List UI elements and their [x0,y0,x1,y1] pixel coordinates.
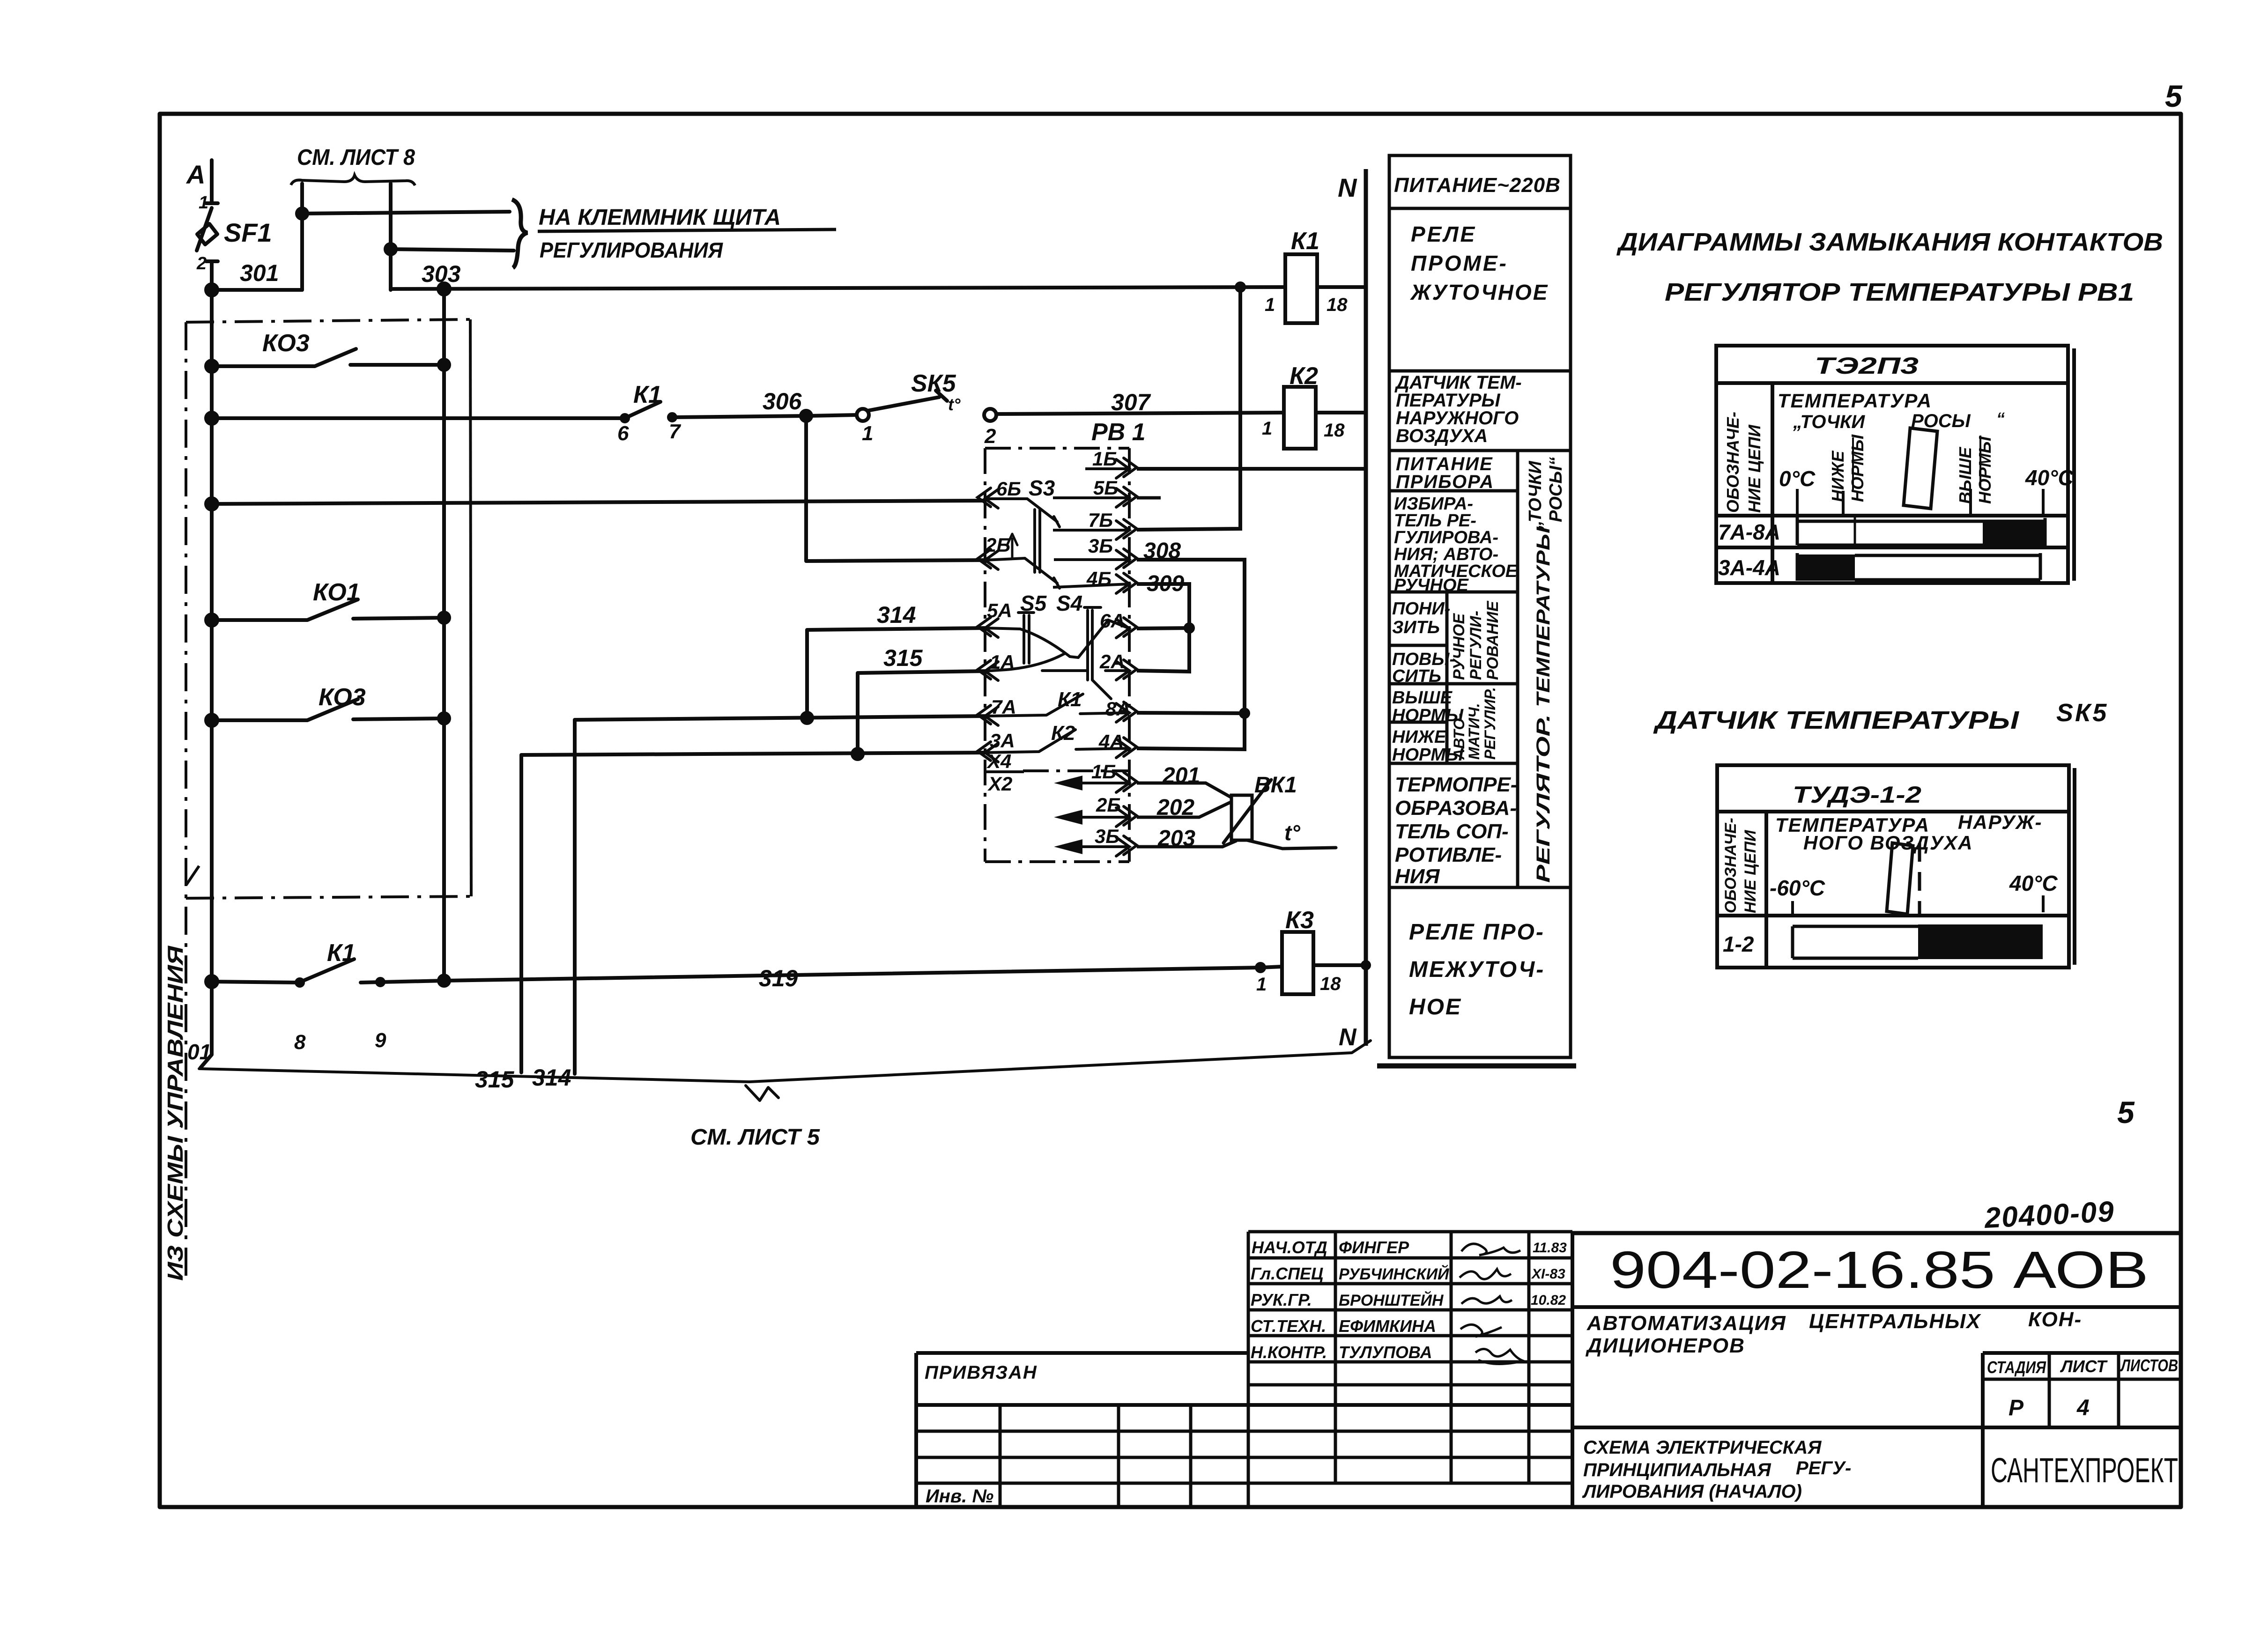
svg-text:ВК1: ВК1 [1254,773,1297,798]
pin X2-1B arrow [1116,772,1137,792]
svg-text:СТ.ТЕХН.: СТ.ТЕХН. [1251,1316,1326,1336]
svg-text:0°С: 0°С [1779,466,1816,491]
scale tick 40C TUDE [2042,895,2045,912]
svg-text:2А: 2А [1099,650,1125,673]
svg-text:ПОНИ-: ПОНИ- [1392,599,1450,619]
svg-text:АВТО-: АВТО- [1451,713,1468,760]
svg-text:К1: К1 [633,381,662,408]
wire pin 4B inner [1053,584,1129,587]
wire 319 [444,968,1260,981]
svg-text:1: 1 [862,422,873,445]
svg-text:ЛИРОВАНИЯ (НАЧАЛО): ЛИРОВАНИЯ (НАЧАЛО) [1582,1481,1802,1502]
pin 6A arrow [1116,618,1137,638]
wire 308 [1137,560,1245,749]
svg-text:8А: 8А [1105,698,1131,720]
scale tick -60C [1791,901,1794,916]
svg-text:ЛИСТОВ: ЛИСТОВ [2120,1356,2178,1375]
contact bar 1-2 filled part [1918,924,2043,959]
svg-text:t°: t° [1284,820,1300,845]
bus A [200,160,212,1068]
svg-text:ТЕМПЕРАТУРА: ТЕМПЕРАТУРА [1778,390,1932,412]
svg-text:Р: Р [2009,1396,2024,1420]
svg-text:5: 5 [2165,79,2183,113]
svg-text:1Б: 1Б [1091,761,1116,783]
svg-text:ПИТАНИЕ~220В: ПИТАНИЕ~220В [1394,174,1561,197]
svg-text:РУЧНОЕ: РУЧНОЕ [1450,613,1468,680]
pin 1B arrow [1116,458,1137,478]
svg-text:К2: К2 [1290,362,1318,390]
svg-text:4: 4 [2076,1396,2090,1420]
svg-text:6Б: 6Б [996,478,1021,500]
wire 307 [996,413,1284,414]
svg-text:РУЧНОЕ: РУЧНОЕ [1394,576,1469,595]
svg-text:НИЕ ЦЕПИ: НИЕ ЦЕПИ [1742,829,1759,913]
svg-text:„ТОЧКИ: „ТОЧКИ [1793,412,1865,432]
svg-text:САНТЕХПРОЕКТ: САНТЕХПРОЕКТ [1991,1451,2178,1490]
svg-text:201: 201 [1162,763,1200,788]
parallelogram symbol TUDE [1887,843,1913,914]
relay K2 [1284,387,1316,449]
break slash on boundary line [186,866,199,885]
svg-text:Н.КОНТР.: Н.КОНТР. [1251,1343,1327,1362]
wire K3 pin1 [1260,967,1282,968]
svg-text:01: 01 [187,1040,211,1064]
svg-text:314: 314 [877,602,916,628]
svg-text:НИЖЕ: НИЖЕ [1392,727,1447,747]
boundary dash-dot box of control scheme [186,319,471,1283]
svg-text:-60°С: -60°С [1770,876,1825,900]
svg-text:„ТОЧКИ: „ТОЧКИ [1526,461,1545,530]
svg-text:ПРИВЯЗАН: ПРИВЯЗАН [925,1362,1038,1383]
pin X2-3B arrow [1116,836,1137,856]
wire pin 1B stub [1085,467,1129,470]
svg-text:СТАДИЯ: СТАДИЯ [1987,1358,2046,1377]
svg-text:1: 1 [1256,974,1267,995]
wire pin 7B inner [1053,529,1129,532]
brace under CM LIST 8 [291,175,415,185]
wire 301 [212,288,302,292]
svg-text:315: 315 [883,645,923,671]
svg-text:303: 303 [422,261,461,287]
thermal switch SK5 [857,409,869,421]
svg-text:Х2: Х2 [987,773,1012,795]
divider X4/X2 [986,770,1024,773]
title block grid [916,1232,2181,1507]
node v2 [385,244,396,254]
pin 6B arrow left [978,488,998,508]
svg-text:307: 307 [1111,389,1151,415]
svg-text:308: 308 [1143,539,1181,563]
node 308-8A [1239,708,1250,719]
svg-text:ПРИБОРА: ПРИБОРА [1396,472,1494,492]
svg-text:К2: К2 [1051,722,1075,745]
scale tick 0C [1796,489,1799,516]
thermometer BK1 [1223,780,1336,849]
svg-text:S3: S3 [1029,476,1055,500]
svg-text:S4: S4 [1056,591,1082,615]
terminal line 1 [302,212,510,214]
svg-text:К1: К1 [1058,688,1082,711]
pin 5B arrow [1116,487,1137,507]
svg-text:1: 1 [1262,418,1272,439]
wire 314 upper branch to 5A [807,628,985,718]
wire pin 3B inner [1054,558,1129,561]
function label table [1377,155,1576,1066]
svg-text:К1: К1 [327,939,356,967]
wire to pin 6B [212,501,985,504]
wire 315 upper branch to 1A [858,671,985,754]
contact bar 7A-8A [1797,516,2045,547]
svg-text:К3: К3 [1285,907,1314,934]
svg-text:1-2: 1-2 [1723,932,1754,956]
svg-text:НАЧ.ОТД: НАЧ.ОТД [1252,1238,1327,1257]
pin 7B arrow [1116,519,1137,540]
svg-text:СМ. ЛИСТ 5: СМ. ЛИСТ 5 [690,1125,820,1150]
svg-text:2Б: 2Б [1096,794,1121,816]
svg-text:РОВАНИЕ: РОВАНИЕ [1484,600,1502,680]
wire 202 [1137,802,1231,817]
svg-text:3Б: 3Б [1088,535,1113,557]
svg-text:203: 203 [1157,826,1195,851]
svg-text:5А: 5А [987,599,1012,621]
svg-text:20400-09: 20400-09 [1983,1196,2115,1235]
svg-text:МАТИЧ.: МАТИЧ. [1466,703,1482,760]
svg-text:КО3: КО3 [262,330,310,357]
wire K3 pin18 to bus N [1313,963,1366,967]
contact K1 inside PB1 [985,694,1129,716]
svg-text:РУК.ГР.: РУК.ГР. [1251,1290,1312,1309]
contact bar 1-2 open part [1793,926,1918,958]
brace mark on bottom bus [746,1086,778,1101]
wire 1B to bus N [1137,467,1366,471]
svg-text:РЕГУЛЯТОР ТЕМПЕРАТУРЫ РВ1: РЕГУЛЯТОР ТЕМПЕРАТУРЫ РВ1 [1665,278,2134,306]
wire 7B to K1 coil circuit [1137,287,1240,530]
node 319-K3 [1255,962,1266,973]
svg-text:18: 18 [1324,420,1345,441]
svg-text:ИЗ СХЕМЫ УПРАВЛЕНИЯ: ИЗ СХЕМЫ УПРАВЛЕНИЯ [163,945,187,1281]
svg-text:315: 315 [475,1066,515,1093]
diagram table TE2P3 [1716,346,2074,583]
wire K1 pin18 to bus N [1317,285,1366,289]
svg-text:319: 319 [759,965,798,991]
wire K2 pin18 to bus N [1316,411,1366,414]
svg-text:6: 6 [617,422,629,445]
svg-text:8: 8 [294,1031,306,1054]
svg-text:306: 306 [763,388,802,414]
svg-text:7: 7 [669,420,682,443]
svg-text:АВТОМАТИЗАЦИЯ: АВТОМАТИЗАЦИЯ [1586,1312,1786,1335]
svg-text:N: N [1339,1024,1357,1051]
svg-text:А: А [185,160,205,189]
svg-text:НОРМЫ: НОРМЫ [1975,436,1994,504]
svg-text:БРОНШТЕЙН: БРОНШТЕЙН [1339,1291,1444,1309]
svg-text:40°С: 40°С [2025,466,2074,490]
vertical KO1/KO3 collector [442,289,446,981]
svg-text:РОСЫ“: РОСЫ“ [1546,457,1566,522]
wire 314 riser [575,716,985,1074]
svg-text:7Б: 7Б [1088,509,1113,531]
svg-text:ЗИТЬ: ЗИТЬ [1392,618,1440,637]
signature squiggles [1460,1244,1523,1364]
svg-text:НА КЛЕММНИК ЩИТА: НА КЛЕММНИК ЩИТА [539,205,781,230]
diagram table TUDE-1-2 [1717,765,2075,968]
svg-text:t°: t° [948,395,961,414]
contact K2 inside PB1 [985,730,1129,753]
svg-text:S5: S5 [1020,591,1047,615]
svg-text:РЕГУЛИР.: РЕГУЛИР. [1482,687,1498,760]
svg-text:ОБОЗНАЧЕ-: ОБОЗНАЧЕ- [1723,412,1742,513]
branch vertical 1 to terminal [300,184,304,290]
contact KO3 lower [212,699,444,720]
svg-text:ЖУТОЧНОЕ: ЖУТОЧНОЕ [1410,280,1549,304]
wire 201 [1137,783,1231,798]
pin 2A arrow [1116,660,1137,680]
svg-text:РЕГУ-: РЕГУ- [1796,1458,1851,1478]
node 303-KO3 [438,283,450,295]
wire pin 5B inner [1053,496,1129,499]
svg-text:ВОЗДУХА: ВОЗДУХА [1396,426,1488,446]
svg-text:10.82: 10.82 [1531,1293,1566,1308]
svg-text:СХЕМА ЭЛЕКТРИЧЕСКАЯ: СХЕМА ЭЛЕКТРИЧЕСКАЯ [1583,1437,1822,1458]
contact KO3 upper [212,349,444,366]
wire 203 [1137,841,1237,847]
svg-text:ТЕЛЬ СОП-: ТЕЛЬ СОП- [1395,820,1509,843]
pin 3B arrow [1116,549,1137,569]
contact K1 top [625,402,808,418]
svg-text:КО3: КО3 [319,684,366,711]
svg-text:40°С: 40°С [2009,871,2058,895]
svg-text:3Б: 3Б [1095,825,1119,847]
svg-text:ДИЦИОНЕРОВ: ДИЦИОНЕРОВ [1585,1334,1745,1357]
bus N [1364,169,1368,1046]
contact bar 3A-4A [1797,553,2040,581]
pin 7A arrow left [978,705,998,725]
svg-text:18: 18 [1320,974,1341,994]
parallelogram symbol TE2P3 [1904,428,1937,509]
svg-text:314: 314 [532,1064,571,1091]
svg-text:ТЕМПЕРАТУРЫ: ТЕМПЕРАТУРЫ [1533,526,1554,707]
svg-text:ПРИНЦИПИАЛЬНАЯ: ПРИНЦИПИАЛЬНАЯ [1583,1460,1771,1480]
svg-text:301: 301 [240,260,279,286]
svg-text:N: N [1338,173,1357,202]
big curly brace [512,200,527,268]
svg-text:SF1: SF1 [224,218,272,247]
svg-text:ФИНГЕР: ФИНГЕР [1339,1238,1409,1257]
svg-text:SК5: SК5 [2056,699,2108,727]
X2 terminal wire 2B [1073,816,1129,819]
X2 terminal wire 3B [1073,845,1129,848]
dashed border line TUDE [1918,843,1921,914]
svg-text:2: 2 [196,254,207,273]
svg-text:ТУДЭ-1-2: ТУДЭ-1-2 [1793,782,1921,808]
relay K3 [1282,932,1313,994]
border frame [160,114,2181,1507]
svg-text:309: 309 [1147,571,1184,596]
svg-text:НИЕ ЦЕПИ: НИЕ ЦЕПИ [1745,424,1764,513]
svg-text:202: 202 [1156,795,1194,820]
svg-text:11.83: 11.83 [1533,1240,1567,1256]
breaker SF1 [197,203,218,261]
svg-text:XI-83: XI-83 [1531,1266,1565,1282]
svg-text:Инв. №: Инв. № [926,1486,993,1507]
bottom bus to sheet 5 [199,1041,1371,1082]
branch to pin 2B [806,416,985,561]
svg-text:9: 9 [375,1029,386,1052]
switch S4 inside PB1 [985,607,1129,699]
wire K1 row [212,416,623,420]
svg-text:904-02-16.85 АОВ: 904-02-16.85 АОВ [1610,1241,2149,1299]
svg-text:НОЕ: НОЕ [1409,995,1462,1020]
switch S5 inside PB1 [985,613,1070,663]
svg-text:ТЕРМОПРЕ-: ТЕРМОПРЕ- [1395,773,1517,796]
pin 4A arrow [1116,738,1137,758]
svg-text:1Б: 1Б [1092,448,1117,470]
terminal line 2 [391,249,514,251]
svg-text:ДАТЧИК ТЕМПЕРАТУРЫ: ДАТЧИК ТЕМПЕРАТУРЫ [1653,706,2019,734]
svg-text:5: 5 [2117,1095,2135,1130]
svg-text:РВ 1: РВ 1 [1091,419,1146,446]
svg-text:1: 1 [199,193,208,213]
pin 2B arrow left [978,549,998,569]
node 309-6A [1184,622,1195,634]
svg-text:ЕФИМКИНА: ЕФИМКИНА [1339,1316,1436,1336]
svg-text:НАРУЖ-: НАРУЖ- [1958,811,2042,833]
wire 6A [1137,628,1189,628]
node wire301-busA [206,284,217,296]
svg-text:ТУЛУПОВА: ТУЛУПОВА [1339,1343,1432,1362]
svg-text:РУБЧИНСКИЙ: РУБЧИНСКИЙ [1339,1265,1450,1283]
wire 315 riser [521,753,985,1072]
right side of boundary box [470,319,471,896]
branch vertical 2 to terminal [389,184,393,290]
device PB1 dash-dot enclosure [985,448,1129,862]
svg-text:18: 18 [1327,295,1348,315]
svg-text:МЕЖУТОЧ-: МЕЖУТОЧ- [1409,957,1545,982]
svg-text:“: “ [1996,409,2005,428]
pin X2-2B arrow [1116,806,1137,827]
pins right edge of PB1 [978,458,1137,856]
svg-text:СМ. ЛИСТ 8: СМ. ЛИСТ 8 [297,145,415,170]
svg-text:ОБРАЗОВА-: ОБРАЗОВА- [1395,797,1517,820]
relay K1 [1285,254,1317,323]
svg-text:SК5: SК5 [911,370,956,397]
svg-text:5Б: 5Б [1093,477,1118,499]
svg-text:КО1: КО1 [313,579,360,606]
wire 5B stub [1137,496,1161,500]
node 303/7B [1235,281,1246,293]
svg-text:РЕГУЛИРОВАНИЯ: РЕГУЛИРОВАНИЯ [540,238,723,262]
svg-text:2: 2 [984,425,996,448]
pin 1A arrow left [978,660,998,680]
svg-text:СИТЬ: СИТЬ [1392,666,1441,686]
svg-text:3А-4А: 3А-4А [1718,555,1780,580]
svg-text:ЛИСТ: ЛИСТ [2060,1357,2108,1376]
contact K1 bottom [212,959,444,983]
svg-text:ОБОЗНАЧЕ-: ОБОЗНАЧЕ- [1722,818,1740,913]
svg-text:КОН-: КОН- [2028,1308,2082,1331]
wire 8A [1137,713,1245,713]
pin 5A arrow left [978,617,998,637]
X2 terminal wire 1B [1060,777,1129,852]
node v1 [297,208,307,219]
svg-text:НИЯ: НИЯ [1395,865,1440,888]
switch S3 inside PB1 [985,499,1060,588]
wire 303 [391,287,1285,289]
pin 4B arrow [1116,573,1137,593]
svg-text:РЕЛЕ: РЕЛЕ [1411,222,1476,246]
node KO3-collector [439,360,449,370]
pin 8A arrow [1116,702,1137,722]
svg-text:НОГО ВОЗДУХА: НОГО ВОЗДУХА [1803,832,1973,854]
svg-text:3А: 3А [990,730,1015,752]
svg-text:ПРОМЕ-: ПРОМЕ- [1411,251,1508,275]
SCHEMATIC-LEFT [197,160,1371,1101]
svg-text:НОРМЫ: НОРМЫ [1848,434,1867,502]
contact KO1 [212,599,444,620]
svg-text:РЕГУЛИ-: РЕГУЛИ- [1467,611,1485,680]
svg-text:К1: К1 [1291,228,1319,255]
wire 309 [1137,584,1189,672]
svg-text:РОТИВЛЕ-: РОТИВЛЕ- [1395,843,1502,866]
svg-text:ДИАГРАММЫ ЗАМЫКАНИЯ КОНТАКТО: ДИАГРАММЫ ЗАМЫКАНИЯ КОНТАКТОВ [1616,228,2163,256]
svg-text:ТЭ2П3: ТЭ2П3 [1815,353,1919,379]
svg-text:ВЫШЕ: ВЫШЕ [1392,688,1453,708]
svg-text:Гл.СПЕЦ: Гл.СПЕЦ [1251,1264,1323,1283]
svg-text:РЕЛЕ ПРО-: РЕЛЕ ПРО- [1409,920,1545,945]
svg-text:1: 1 [1265,295,1275,315]
pin 3A arrow left [978,742,998,762]
svg-text:ЦЕНТРАЛЬНЫХ: ЦЕНТРАЛЬНЫХ [1809,1310,1981,1333]
wire 306 [808,415,857,416]
svg-text:7А-8А: 7А-8А [1718,520,1780,544]
svg-text:РЕГУЛЯТОР.: РЕГУЛЯТОР. [1533,714,1554,883]
scale tick 40C [2042,489,2045,516]
